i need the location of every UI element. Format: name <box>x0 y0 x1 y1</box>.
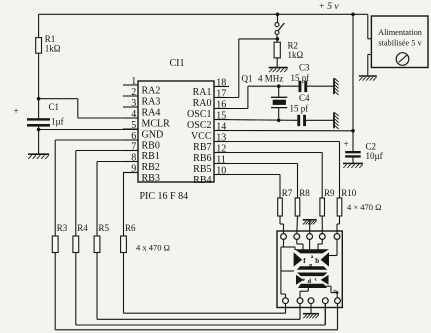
svg-text:RB7: RB7 <box>193 142 211 153</box>
svg-text:RA1: RA1 <box>193 87 212 98</box>
svg-text:GND: GND <box>142 130 164 141</box>
svg-text:5: 5 <box>131 120 136 131</box>
svg-text:R1: R1 <box>45 34 56 44</box>
svg-text:R6: R6 <box>125 223 136 233</box>
svg-text:RB5: RB5 <box>193 164 211 175</box>
svg-text:1kΩ: 1kΩ <box>45 44 61 54</box>
svg-text:RB4: RB4 <box>193 175 211 186</box>
svg-text:R3: R3 <box>57 223 68 233</box>
svg-text:RB1: RB1 <box>142 151 160 162</box>
svg-text:4 × 470 Ω: 4 × 470 Ω <box>347 202 382 212</box>
svg-text:10µf: 10µf <box>366 151 383 161</box>
svg-text:RA3: RA3 <box>142 97 161 108</box>
svg-text:Alimentation: Alimentation <box>378 28 423 37</box>
svg-text:4 x 470 Ω: 4 x 470 Ω <box>136 243 170 253</box>
svg-text:+: + <box>14 106 19 116</box>
svg-text:RA4: RA4 <box>142 108 161 119</box>
svg-text:C3: C3 <box>299 63 310 73</box>
svg-text:CI1: CI1 <box>170 58 185 69</box>
svg-text:C2: C2 <box>366 142 377 152</box>
svg-text:OSC2: OSC2 <box>187 120 211 131</box>
svg-text:4 MHz: 4 MHz <box>258 74 283 84</box>
svg-text:4: 4 <box>131 109 136 120</box>
svg-text:VCC: VCC <box>191 131 212 142</box>
svg-text:d: d <box>308 278 312 285</box>
svg-text:R5: R5 <box>99 223 110 233</box>
svg-text:Q1: Q1 <box>242 74 253 84</box>
svg-text:R7: R7 <box>282 188 293 198</box>
svg-text:MCLR: MCLR <box>142 119 171 130</box>
svg-text:RA0: RA0 <box>193 98 212 109</box>
svg-text:R9: R9 <box>324 188 335 198</box>
svg-text:3: 3 <box>131 98 136 109</box>
svg-text:1: 1 <box>131 76 136 87</box>
svg-text:+: + <box>344 139 349 149</box>
svg-text:b: b <box>315 257 319 265</box>
svg-text:1kΩ: 1kΩ <box>288 50 304 60</box>
svg-text:C1: C1 <box>49 102 60 112</box>
svg-text:R2: R2 <box>288 41 299 51</box>
svg-text:R10: R10 <box>341 188 357 198</box>
svg-text:2: 2 <box>131 87 136 98</box>
svg-text:+ 5 v: + 5 v <box>319 2 340 12</box>
svg-text:RB6: RB6 <box>193 153 211 164</box>
svg-text:RB3: RB3 <box>142 173 160 184</box>
svg-text:stabilisée 5 v: stabilisée 5 v <box>378 39 422 48</box>
svg-text:C4: C4 <box>299 93 310 103</box>
svg-text:1µf: 1µf <box>51 117 64 127</box>
svg-text:15 pf: 15 pf <box>290 104 309 114</box>
svg-text:R4: R4 <box>77 223 88 233</box>
svg-text:PIC 16 F 84: PIC 16 F 84 <box>140 191 189 202</box>
svg-text:RB0: RB0 <box>142 141 160 152</box>
svg-text:RB2: RB2 <box>142 162 160 173</box>
svg-text:OSC1: OSC1 <box>187 109 211 120</box>
svg-text:RA2: RA2 <box>142 86 161 97</box>
svg-text:R8: R8 <box>299 188 310 198</box>
svg-text:18: 18 <box>216 77 226 88</box>
svg-text:15 pf: 15 pf <box>291 73 310 83</box>
